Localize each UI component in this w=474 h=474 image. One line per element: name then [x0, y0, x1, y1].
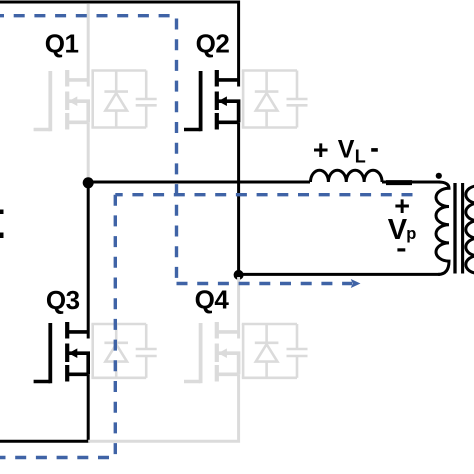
wire Q2 source down to node B: [237, 122, 240, 275]
body diode D2 with capacitor C2 (grey): [242, 71, 308, 128]
current path in: top dashed line down through Q2 to primary bottom: [0, 16, 352, 284]
label VL plus sign: [313, 135, 329, 165]
body diode D4 with capacitor C4 (grey): [242, 324, 308, 378]
inductor L1: [311, 170, 383, 182]
svg-text:p: p: [406, 225, 416, 243]
svg-text:V: V: [338, 136, 355, 164]
wire node A down to Q3 drain: [87, 183, 90, 339]
current path arrowhead: [351, 279, 361, 288]
label VL minus sign: [371, 148, 378, 152]
transistor Q4 (grey, off): [184, 322, 239, 383]
svg-text:Q2: Q2: [196, 29, 230, 59]
label Vp minus sign: [397, 248, 405, 251]
svg-text:Q4: Q4: [195, 285, 230, 315]
wire middle rail node A to inductor: [88, 181, 310, 184]
svg-text:Q1: Q1: [45, 29, 79, 59]
wire inductor to transformer primary top: [382, 181, 440, 185]
wire top rail and Q2 drain drop: [0, 2, 239, 87]
label Vp plus sign: [394, 191, 410, 221]
svg-text:V: V: [388, 214, 408, 246]
label Q4: [195, 285, 230, 315]
battery terminal marks (left edge): [0, 210, 4, 239]
svg-text:+: +: [313, 135, 329, 165]
wire Q3 source to bottom rail and bottom rail left (black): [0, 374, 88, 441]
transistor Q2 (black, on): [184, 70, 239, 131]
label VL: [338, 136, 366, 167]
body diode D1 with capacitor C1 (grey): [91, 71, 156, 128]
wire Q1 source to node A (grey upper part): [87, 122, 90, 178]
wire node B to transformer primary bottom: [239, 273, 440, 276]
body diode D3 with capacitor C3 (grey): [91, 324, 156, 378]
node A junction dot: [83, 177, 94, 188]
svg-text:L: L: [355, 146, 366, 166]
wire Q1 drain (grey, off state): [87, 4, 90, 87]
svg-text:Q3: Q3: [46, 285, 80, 315]
label Q3: [46, 285, 80, 315]
transistor Q3 (black, on): [34, 322, 89, 383]
label Q2: [196, 29, 230, 59]
node B junction dot: [234, 270, 244, 280]
transformer core: [455, 183, 463, 274]
wire bottom rail right segment and Q4 source (grey): [88, 374, 238, 441]
label Vp: [388, 214, 417, 246]
wire node B to Q4 drain (grey): [237, 277, 240, 339]
transformer T1 primary winding: [436, 182, 449, 274]
current path return: from primary top back through Q3 to bottom left: [0, 195, 413, 458]
transformer T1 secondary winding: [466, 186, 474, 273]
transistor Q1 (grey, off): [34, 70, 89, 131]
label Q1: [45, 29, 79, 59]
transformer phase dot: [436, 173, 442, 179]
